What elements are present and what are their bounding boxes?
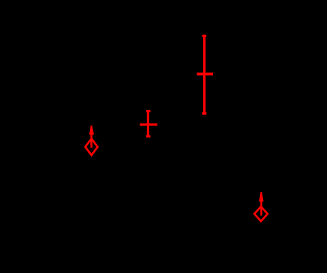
arrow stem of I1 bbox=[90, 126, 92, 148]
voltage source V1 bbox=[140, 110, 158, 137]
dependent current source I2 bbox=[254, 192, 267, 221]
voltage source V2 bbox=[197, 35, 213, 115]
diamond body of I2 bbox=[254, 207, 267, 222]
arrowhead of I1 bbox=[89, 127, 94, 134]
vertical body line of V2 bbox=[203, 35, 206, 115]
arrowhead of I2 bbox=[259, 194, 264, 201]
diamond body of I1 bbox=[85, 139, 97, 156]
plus crossbar of V2 bbox=[197, 73, 213, 76]
vertical body line of V1 bbox=[147, 110, 149, 137]
plus crossbar of V1 bbox=[140, 123, 158, 125]
arrow stem of I2 bbox=[260, 192, 262, 216]
bottom cap of V1 bbox=[146, 135, 150, 137]
top cap of V1 bbox=[146, 110, 150, 112]
bottom cap of V2 bbox=[202, 112, 206, 115]
dependent current source I1 bbox=[85, 126, 97, 156]
top cap of V2 bbox=[202, 35, 206, 37]
